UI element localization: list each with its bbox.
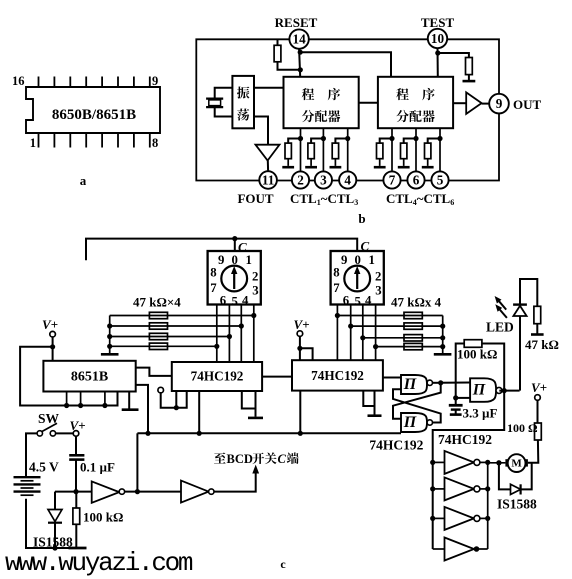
svg-text:3: 3 <box>252 284 258 298</box>
wire distributor to pin at x416 <box>415 128 417 171</box>
8651B bottom pin x80.6 <box>80 392 82 406</box>
pull resistor at pin x392 <box>377 143 383 159</box>
node network2 row 1 <box>335 313 340 318</box>
terminal V+ (motor) <box>535 395 541 401</box>
IC pin 1 lead (bottom) <box>38 133 40 148</box>
svg-text:7: 7 <box>389 173 396 188</box>
wire switch1 output 2 to 74HC192 <box>228 305 230 363</box>
svg-text:8: 8 <box>333 266 339 280</box>
node NAND C output <box>502 388 507 393</box>
inverter 3 input wire <box>433 517 445 519</box>
network1 row 4 wire <box>110 345 217 347</box>
pin 3 circle <box>315 171 332 188</box>
pin 9 circle <box>489 94 509 114</box>
switch SW <box>37 431 42 436</box>
inverter 2 triangle <box>445 477 475 500</box>
svg-text:5: 5 <box>231 295 237 309</box>
svg-text:www.wuyazi.com: www.wuyazi.com <box>5 548 193 578</box>
svg-text:4: 4 <box>344 173 351 188</box>
wire 100ohm to motor <box>528 440 539 463</box>
svg-text:C: C <box>278 452 287 466</box>
svg-text:6: 6 <box>413 173 420 188</box>
svg-text:11: 11 <box>262 173 274 188</box>
svg-text:100 Ω: 100 Ω <box>507 421 538 435</box>
svg-text:3.3 µF: 3.3 µF <box>463 406 498 421</box>
capacitor 0.1uF <box>75 436 77 455</box>
NAND gate A (74HC192) <box>401 375 427 394</box>
wire switch to battery + <box>26 433 37 477</box>
wire crystal top to oscillator <box>215 88 233 99</box>
svg-text:Π: Π <box>403 414 417 431</box>
resistor 47k (2-4) <box>404 343 422 349</box>
wire NAND A output <box>433 382 441 384</box>
wire 74HC192-2 to NAND A <box>383 377 401 379</box>
svg-text:FOUT: FOUT <box>237 191 273 206</box>
node pin branch x347.7 <box>345 136 350 141</box>
svg-text:100 kΩ: 100 kΩ <box>457 347 497 362</box>
wire inverter to pin 11 <box>267 161 269 171</box>
node inverter D input <box>73 489 78 494</box>
74HC192-1 gnd pins join <box>242 391 256 409</box>
program distributor block 1 程序分配器 <box>284 77 359 128</box>
svg-text:2: 2 <box>252 270 258 284</box>
resistor 47k (1-4) <box>149 343 167 349</box>
arrow to BCD switch C <box>252 465 259 474</box>
cross wire NAND A out to NAND B in <box>393 383 441 419</box>
wire inverters to motor <box>488 462 506 464</box>
inverter 1 input wire <box>433 461 445 463</box>
inverter E bubble <box>209 489 214 494</box>
IC pin 14 lead (top) <box>69 77 71 88</box>
svg-text:CTL1~CTL3: CTL1~CTL3 <box>290 191 358 207</box>
node V+ branch 2 <box>297 346 302 351</box>
svg-text:1: 1 <box>30 136 36 150</box>
8651B bottom pin x66.6 <box>66 392 68 406</box>
svg-text:16: 16 <box>12 74 25 88</box>
47k terminal bar <box>531 333 544 336</box>
wire 8651B to 74HC192-1 <box>136 368 172 376</box>
74HC192-1 ground bar <box>248 417 263 420</box>
network2 row 1 wire <box>337 315 442 317</box>
wire distributor to pin at x300.5 <box>300 128 302 171</box>
network2 row 4 wire <box>376 346 443 348</box>
test pull resistor <box>466 58 473 75</box>
inverter 2 output wire <box>479 488 487 490</box>
wire switch1 output 4 to 74HC192 <box>253 305 255 363</box>
node diode ground <box>52 545 57 550</box>
svg-text:a: a <box>80 173 87 188</box>
wire switch2 output 2 to 74HC192 <box>350 305 352 361</box>
flyback diode IS1588 <box>499 463 511 490</box>
IC pin 7 lead (bottom) <box>133 133 135 148</box>
inverter E triangle <box>181 481 209 503</box>
network2 common rail <box>442 316 444 354</box>
node network1 row 4 <box>214 344 219 349</box>
svg-text:V+: V+ <box>42 317 58 332</box>
svg-text:10: 10 <box>431 31 445 46</box>
wire to diode IS1588 <box>54 492 56 510</box>
NAND gate C (74HC192) <box>470 378 496 402</box>
inverter 3 bubble <box>474 515 480 521</box>
wire node to control rail <box>136 433 138 491</box>
test resistor terminal bar <box>463 80 476 83</box>
node network1 row 2 <box>239 323 244 328</box>
74HC192-1 pin to rail <box>198 391 200 433</box>
FOUT inverter (triangle down) <box>256 145 280 161</box>
pin 2 circle <box>292 171 309 188</box>
wire battery - to ground rail <box>26 499 77 548</box>
wire oscillator to FOUT inverter <box>254 117 268 145</box>
wire distributor to pin at x440 <box>439 128 441 171</box>
NAND A output bubble <box>427 380 432 385</box>
program distributor block 2 程序分配器 <box>378 77 453 128</box>
LED D1 <box>519 316 521 391</box>
IC pin 13 lead (top) <box>85 77 87 88</box>
pull resistor terminal bar x392 <box>374 166 386 169</box>
svg-text:1: 1 <box>368 253 374 267</box>
svg-text:IS1588: IS1588 <box>497 497 537 512</box>
8651B ground pin <box>128 392 130 409</box>
8651B bottom pin x104.9 <box>104 392 106 406</box>
node pin branch x300.5 <box>298 136 303 141</box>
node under pin 10 <box>435 50 440 55</box>
network2 rail terminal bar <box>434 353 452 356</box>
diode IS1588 (input clamp) <box>48 510 62 522</box>
svg-text:Π: Π <box>472 382 486 399</box>
wire V+ to 8651B <box>52 337 54 361</box>
wire distributor to pin at x347.7 <box>347 128 349 171</box>
inverter 1 bubble <box>474 459 480 465</box>
pull resistor at pin x323.4 <box>308 143 314 159</box>
node pin branch x416 <box>413 136 418 141</box>
pull resistor lead x392 <box>380 139 392 144</box>
capacitor ground bar <box>450 413 462 416</box>
motor M <box>505 459 509 466</box>
pull resistor terminal bar x300.5 <box>282 166 294 169</box>
NAND C output bubble <box>496 387 502 393</box>
node motor left <box>496 460 501 465</box>
pin 14 circle <box>289 29 308 48</box>
IC pin 16 lead (top) <box>38 77 40 88</box>
wire oscillator to distributor1 <box>254 87 284 89</box>
wire switch1 output 1 to 74HC192 <box>216 305 218 363</box>
svg-text:1: 1 <box>245 253 251 267</box>
inverter 3 output wire <box>479 517 487 519</box>
svg-text:9: 9 <box>218 253 224 267</box>
network2 row 2 wire <box>351 325 443 327</box>
svg-text:74HC192: 74HC192 <box>369 438 423 453</box>
node 8651B output on rail <box>145 431 150 436</box>
wire switch2 output 1 to 74HC192 <box>336 305 338 361</box>
svg-text:3: 3 <box>375 284 381 298</box>
IC 74HC192 no.1 <box>172 362 262 391</box>
wire LED to resistor 47k <box>520 279 537 306</box>
8651B ground bar <box>122 408 139 411</box>
74HC192-1 gnd stem <box>255 409 257 417</box>
svg-text:7: 7 <box>333 281 340 295</box>
wire terminal to 74HC192-1 pins <box>161 391 187 408</box>
svg-text:BCD: BCD <box>227 452 253 466</box>
terminal (borrow output) 74HC192-1 <box>158 387 164 393</box>
IC 8651B <box>43 361 135 392</box>
svg-text:b: b <box>358 211 365 226</box>
resistor 47k (1-3) <box>149 333 167 339</box>
network2 row 3 wire <box>363 337 443 339</box>
svg-text:0: 0 <box>231 253 237 267</box>
74HC192-2 pin to rail <box>299 391 301 434</box>
wire node to switch 1 <box>234 239 236 251</box>
resistor 47k (2-2) <box>404 323 422 329</box>
svg-text:14: 14 <box>293 32 307 47</box>
wire V+ to 8651B bottom pins <box>20 347 117 406</box>
wire switch to V+ terminal <box>56 432 74 434</box>
pull resistor lead x300.5 <box>288 139 300 144</box>
wire NAND A to NAND C <box>441 382 470 384</box>
ground rail bar <box>69 547 87 550</box>
network1 row 2 wire <box>110 325 242 327</box>
NAND B output bubble <box>427 420 432 425</box>
wire control rail to latch <box>137 432 401 434</box>
svg-text:6: 6 <box>220 294 227 308</box>
wire distributor to pin at x323.4 <box>322 128 324 171</box>
svg-text:OUT: OUT <box>513 97 542 112</box>
74HC192-2 gnd stem <box>374 406 376 415</box>
74HC192-2 ground bar <box>368 414 382 417</box>
wire distributor to pin at x392 <box>391 128 393 171</box>
wire buffer to pin 9 <box>482 103 490 105</box>
reset pull-up resistor top lead <box>277 39 279 45</box>
crystal X1 <box>206 97 223 99</box>
svg-text:Π: Π <box>403 376 417 393</box>
pin 10 circle <box>428 29 447 48</box>
IC pin 9 lead (top) <box>149 77 151 88</box>
resistor 47k (1-1) <box>149 312 167 318</box>
svg-text:RESET: RESET <box>275 15 318 30</box>
inverter 4 input wire <box>433 548 445 550</box>
cross wire NAND B out to NAND A in <box>393 389 441 422</box>
svg-text:3: 3 <box>320 173 327 188</box>
wire feedback right <box>482 344 504 391</box>
node 74HC192-1 pin join <box>174 405 179 410</box>
output buffer triangle <box>466 92 481 114</box>
IC pin 12 lead (top) <box>101 77 103 88</box>
pin 11 circle <box>259 171 277 189</box>
inverter 3 triangle <box>445 507 475 530</box>
wire switch1 output 3 to 74HC192 <box>240 305 242 363</box>
node 74HC192-1 on rail <box>197 431 202 436</box>
svg-text:M: M <box>511 457 522 469</box>
wire test node to resistor <box>438 53 469 58</box>
wire V+ to 100ohm <box>537 400 539 423</box>
resistor 100k feedback <box>464 340 482 348</box>
inverter D bubble <box>119 489 124 494</box>
pull resistor at pin x347.7 <box>332 143 338 159</box>
NAND gate B (74HC192) <box>401 413 427 432</box>
wire reset node to distributor 2 <box>300 52 391 77</box>
svg-text:7: 7 <box>210 281 217 295</box>
svg-text:47 kΩ: 47 kΩ <box>525 337 559 352</box>
capacitor 3.3uF <box>455 398 457 405</box>
LED light arrows <box>498 300 507 318</box>
pull resistor terminal bar x323.4 <box>305 166 317 169</box>
node network1 row 1 <box>251 313 256 318</box>
resistor 100 ohm <box>535 423 542 440</box>
resistor 100k (input) <box>73 508 80 524</box>
node pin branch x392 <box>389 136 394 141</box>
74HC192-1 bottom pin a <box>175 391 177 408</box>
wire distributor2 to output buffer <box>453 102 466 104</box>
network1 row 1 wire <box>110 315 254 317</box>
node under pin 14 <box>298 50 303 55</box>
BCD rotary switch S2 <box>331 251 384 305</box>
svg-text:4: 4 <box>242 294 249 308</box>
pull resistor terminal bar x440 <box>422 166 434 169</box>
oscillator block 振荡 <box>232 76 254 128</box>
network1 rail terminal bar <box>101 353 119 356</box>
svg-text:2: 2 <box>297 173 304 188</box>
IC pin 4 lead (bottom) <box>85 133 87 148</box>
pull resistor lead x440 <box>428 139 440 144</box>
pin 7 circle <box>383 171 400 188</box>
svg-text:9: 9 <box>341 253 347 267</box>
svg-text:100 kΩ: 100 kΩ <box>83 510 123 525</box>
svg-text:9: 9 <box>152 74 158 88</box>
wire RC node to NAND C input <box>456 397 470 399</box>
svg-text:0.1 µF: 0.1 µF <box>80 460 115 475</box>
wire resistor to node <box>278 62 301 70</box>
node pin branch x323.4 <box>321 136 326 141</box>
network1 row 3 wire <box>110 336 230 338</box>
svg-text:5: 5 <box>354 295 360 309</box>
IC pin 10 lead (top) <box>133 77 135 88</box>
wire V+ to 74HC192-2 <box>299 336 301 360</box>
IC pin 2 lead (bottom) <box>53 133 55 148</box>
inverter 2 bubble <box>474 486 480 492</box>
node network2 row 4 <box>373 344 378 349</box>
IC pin 6 lead (bottom) <box>117 133 119 148</box>
diode to ground <box>54 523 56 548</box>
wire inverter D to inverter E <box>125 491 181 493</box>
pull resistor lead x416 <box>404 139 416 144</box>
test resistor bottom lead <box>468 75 470 81</box>
svg-text:74HC192: 74HC192 <box>438 432 492 447</box>
IC pin 15 lead (top) <box>53 77 55 88</box>
inverter D input wire <box>55 491 92 493</box>
BCD rotary switch S1 <box>208 251 261 305</box>
pull resistor at pin x416 <box>401 143 407 159</box>
terminal V+ (battery) <box>73 431 79 437</box>
svg-text:74HC192: 74HC192 <box>191 369 244 384</box>
wire feedback left <box>456 344 465 398</box>
resistor 47k (LED) <box>534 306 541 323</box>
pin 5 circle <box>431 171 448 188</box>
wire switch2 output 4 to 74HC192 <box>375 305 377 361</box>
svg-text:8: 8 <box>152 136 158 150</box>
svg-text:8650B/8651B: 8650B/8651B <box>52 107 136 123</box>
svg-text:4.5 V: 4.5 V <box>29 460 59 475</box>
svg-text:LED: LED <box>486 320 514 335</box>
svg-text:47 kΩx 4: 47 kΩx 4 <box>391 295 442 310</box>
74HC192-2 gnd pins join <box>363 391 374 406</box>
node C at switch 1 <box>232 236 237 241</box>
inverter output tie rail <box>487 462 489 549</box>
pull resistor lead x323.4 <box>311 139 323 144</box>
svg-text:5: 5 <box>437 173 444 188</box>
node inverter D output <box>135 489 140 494</box>
IC package U1 8650B/8651B body <box>26 87 160 133</box>
inverter 1 output wire <box>479 461 487 463</box>
svg-text:47 kΩ×4: 47 kΩ×4 <box>133 295 181 310</box>
IC pin 5 lead (bottom) <box>101 133 103 148</box>
node NAND A output <box>438 380 443 385</box>
svg-text:V+: V+ <box>293 317 309 332</box>
pull resistor lead x347.7 <box>335 139 347 144</box>
pull resistor terminal bar x347.7 <box>330 166 342 169</box>
pin 4 circle <box>339 171 356 188</box>
svg-text:4: 4 <box>365 294 372 308</box>
IC pin 8 lead (bottom) <box>149 133 151 148</box>
inverter 4 output wire <box>474 548 488 550</box>
wire 8651B to load rail <box>136 385 148 433</box>
wire switch2 output 3 to 74HC192 <box>362 305 364 361</box>
pin 6 circle <box>407 171 424 188</box>
pull resistor at pin x300.5 <box>285 143 291 159</box>
IC pin 11 lead (top) <box>117 77 119 88</box>
wire common C rail <box>86 239 357 261</box>
resistor 47k (1-2) <box>149 323 167 329</box>
svg-text:8651B: 8651B <box>71 370 108 385</box>
IC 74HC192 no.2 <box>292 360 383 390</box>
node network1 row 3 <box>227 334 232 339</box>
svg-text:8: 8 <box>210 266 216 280</box>
label 至BCD开关C端 <box>214 452 226 463</box>
wire distributor1 to distributor2 <box>359 102 378 104</box>
terminal V+ (8651B) <box>50 331 56 337</box>
inverter D triangle <box>92 481 120 502</box>
terminal V+ (74HC192-2) <box>297 331 303 337</box>
inverter 1 triangle <box>445 451 475 474</box>
pull resistor terminal bar x416 <box>398 166 410 169</box>
svg-text:2: 2 <box>375 270 381 284</box>
wire crystal bottom to oscillator <box>215 107 233 116</box>
wire 74HC192-1 to 74HC192-2 <box>262 376 292 378</box>
wire NAND C output to inverter rail <box>433 391 505 549</box>
node RC junction <box>453 395 458 400</box>
svg-text:c: c <box>280 557 286 571</box>
resistor 47k (2-3) <box>404 335 422 341</box>
block diagram border <box>196 39 499 180</box>
wire inverter E output to BCD arrow <box>214 472 256 492</box>
reset pull-up resistor <box>274 45 281 62</box>
network1 common rail <box>109 316 111 354</box>
node network2 row 3 <box>360 335 365 340</box>
node network2 row 2 <box>348 324 353 329</box>
pull resistor at pin x440 <box>425 143 431 159</box>
inverter 4 triangle <box>445 538 475 561</box>
svg-text:0: 0 <box>354 253 360 267</box>
node pin branch x440 <box>437 136 442 141</box>
svg-text:6: 6 <box>343 294 350 308</box>
inverter 2 input wire <box>433 488 445 490</box>
svg-text:9: 9 <box>496 96 503 111</box>
svg-text:74HC192: 74HC192 <box>311 368 364 383</box>
wire pin10 to distributor 2 <box>437 48 439 76</box>
svg-text:V+: V+ <box>531 380 547 395</box>
node inverter 4 output <box>474 546 480 552</box>
resistor 47k (2-1) <box>404 312 422 318</box>
node 74HC192-2 on rail <box>298 431 303 436</box>
IC pin 3 lead (bottom) <box>69 133 71 148</box>
